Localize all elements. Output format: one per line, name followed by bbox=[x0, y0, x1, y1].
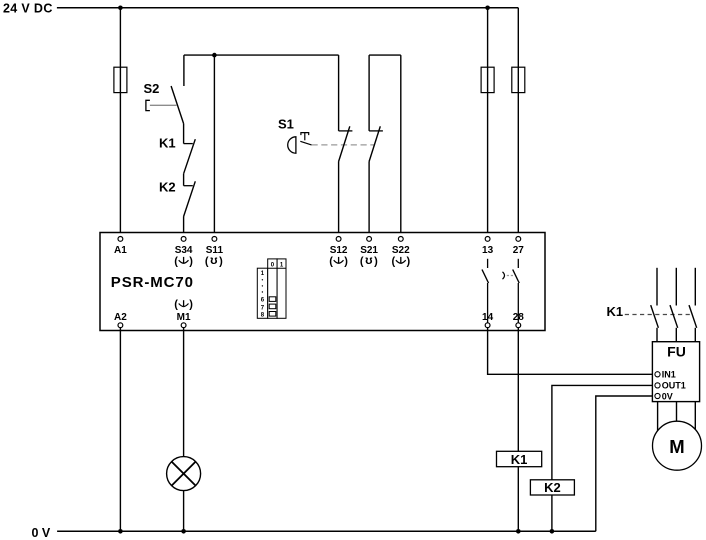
switch S2 actuator link bbox=[150, 104, 177, 106]
wire K2 to S34 bbox=[183, 217, 185, 237]
svg-text:FU: FU bbox=[667, 344, 686, 360]
terminal 14 bbox=[482, 312, 494, 328]
svg-text:S34: S34 bbox=[175, 245, 193, 256]
wire 24V rail bbox=[57, 7, 518, 9]
relay module PSR-MC70 box bbox=[100, 233, 545, 331]
lamp H1 bbox=[167, 457, 201, 491]
wire FU to motor L3 bbox=[694, 402, 696, 430]
contact S1 channel2 NC bbox=[369, 126, 383, 161]
wire M1 to lamp bbox=[183, 328, 185, 457]
frequency converter FU box bbox=[652, 342, 699, 402]
wire 28 drop bbox=[517, 328, 519, 532]
node junction S11 bus bbox=[212, 53, 217, 58]
node junction lamp/0V bbox=[181, 529, 186, 534]
contactor K1 pole L3 bbox=[689, 268, 697, 342]
contact K2 NC bbox=[184, 181, 196, 216]
wire FU to motor L1 bbox=[657, 402, 659, 432]
contact 27-28 NO bbox=[513, 259, 520, 323]
switch S1 mushroom head bbox=[288, 133, 309, 154]
terminal S11 bbox=[205, 237, 224, 268]
wire S21-S22 bridge bbox=[369, 54, 401, 56]
wire S11 drop bbox=[213, 55, 215, 237]
svg-text:OUT1: OUT1 bbox=[662, 381, 686, 391]
svg-text:K2: K2 bbox=[159, 180, 176, 195]
contact K1 NC bbox=[184, 139, 196, 174]
wire FU 0V return bbox=[596, 396, 655, 531]
wire S22 drop bbox=[400, 55, 402, 237]
switch S2 contact bbox=[171, 86, 184, 124]
wire FU OUT1 to K2 bbox=[552, 385, 655, 531]
svg-text:M: M bbox=[669, 436, 684, 457]
node junction 24V/A1 bbox=[118, 6, 123, 11]
wire S12 drop bbox=[338, 162, 340, 237]
switch S1 actuator link bbox=[300, 141, 374, 145]
terminal 13 bbox=[482, 237, 494, 257]
svg-text:ʊ: ʊ bbox=[365, 253, 373, 267]
terminal S34 bbox=[174, 237, 193, 268]
svg-text:0V: 0V bbox=[662, 391, 673, 401]
coil K2 bbox=[530, 480, 574, 495]
node junction A2/0V bbox=[118, 529, 123, 534]
switch S1 label bbox=[278, 117, 294, 132]
svg-text:S22: S22 bbox=[392, 245, 410, 256]
wire FU to motor L2 bbox=[676, 402, 678, 422]
FU terminal 0V bbox=[655, 391, 673, 401]
node junction 24V/13 bbox=[485, 6, 490, 11]
contactor K1 label bbox=[607, 304, 624, 319]
relay module name bbox=[111, 274, 194, 291]
svg-text:(: ( bbox=[205, 255, 209, 267]
terminal S21 bbox=[360, 237, 379, 268]
svg-text:K1: K1 bbox=[607, 304, 624, 319]
contactor K1 pole L2 bbox=[670, 268, 678, 342]
FU terminal IN1 bbox=[655, 370, 676, 380]
motor M bbox=[653, 421, 702, 470]
DIP switch graphic bbox=[257, 259, 286, 319]
terminal S22 bbox=[391, 237, 410, 268]
svg-text:K2: K2 bbox=[544, 480, 561, 495]
wire S1 contact2 upper bbox=[368, 55, 370, 131]
contactor K1 link dashes bbox=[625, 314, 692, 316]
switch S2 label bbox=[144, 81, 160, 96]
contact K1 label bbox=[159, 136, 176, 151]
wire S1 contact1 upper bbox=[338, 55, 340, 131]
svg-text:M1: M1 bbox=[177, 312, 191, 323]
switch S2 actuator bracket bbox=[146, 100, 150, 110]
svg-text:S2: S2 bbox=[144, 81, 160, 96]
svg-text:0 V: 0 V bbox=[32, 526, 51, 540]
svg-text:IN1: IN1 bbox=[662, 370, 676, 380]
terminal A1 bbox=[114, 237, 127, 257]
terminal A2 bbox=[114, 312, 127, 328]
svg-text:(: ( bbox=[360, 255, 364, 267]
terminal 28 bbox=[513, 312, 525, 328]
svg-text:24 V DC: 24 V DC bbox=[3, 2, 53, 16]
wire A1 drop upper bbox=[119, 8, 121, 237]
coil K1 bbox=[497, 451, 542, 467]
net 0V label bbox=[32, 526, 51, 540]
svg-text:PSR-MC70: PSR-MC70 bbox=[111, 274, 194, 291]
wire 13 drop upper bbox=[487, 8, 489, 237]
wire 0V rail bbox=[57, 530, 596, 532]
fuse F1 bbox=[114, 67, 127, 92]
wire horizontal bus S11 bbox=[184, 54, 339, 56]
wire lamp to 0V bbox=[183, 491, 185, 532]
wire S2 to K1 bbox=[183, 124, 185, 144]
svg-text:): ) bbox=[219, 255, 223, 267]
terminal M1 bbox=[174, 299, 193, 328]
mechanical link 13-27 bbox=[503, 272, 514, 279]
terminal 27 bbox=[513, 237, 525, 257]
net 24V label bbox=[3, 2, 53, 16]
wire S21 drop bbox=[368, 162, 370, 237]
svg-text:): ) bbox=[374, 255, 378, 267]
wire K1 to K2 bbox=[183, 174, 185, 186]
svg-text:K1: K1 bbox=[511, 452, 528, 467]
svg-text:13: 13 bbox=[482, 245, 494, 256]
wire S2 branch top bbox=[183, 55, 185, 86]
svg-text:27: 27 bbox=[513, 245, 525, 256]
terminal S12 bbox=[329, 237, 348, 268]
svg-text:ʊ: ʊ bbox=[210, 253, 218, 267]
svg-text:A2: A2 bbox=[114, 312, 127, 323]
contact K2 label bbox=[159, 180, 176, 195]
svg-text:S12: S12 bbox=[330, 245, 348, 256]
node junction 28/0V bbox=[516, 529, 521, 534]
fuse F3 bbox=[512, 67, 525, 92]
wire 27 drop upper bbox=[517, 8, 519, 237]
wire 14 to FU IN1 bbox=[488, 328, 655, 375]
contact 13-14 NO bbox=[482, 259, 489, 323]
svg-text:K1: K1 bbox=[159, 136, 176, 151]
node junction K2/0V bbox=[550, 529, 555, 534]
wire A2 drop bbox=[119, 328, 121, 532]
fuse F2 bbox=[481, 67, 494, 92]
contactor K1 pole L1 bbox=[651, 268, 659, 342]
svg-text:A1: A1 bbox=[114, 245, 127, 256]
FU terminal OUT1 bbox=[655, 381, 686, 391]
contact S1 channel1 NC bbox=[339, 126, 353, 161]
svg-text:S1: S1 bbox=[278, 117, 294, 132]
